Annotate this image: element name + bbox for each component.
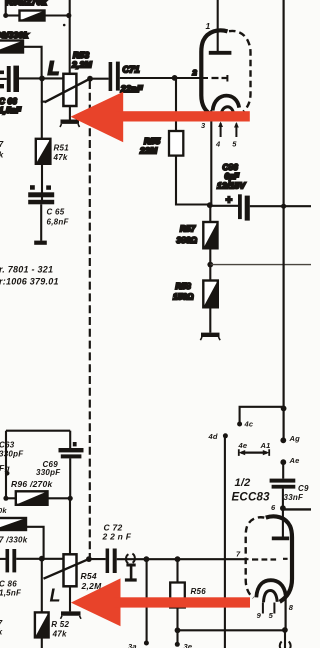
- svg-text:R53: R53: [73, 50, 89, 60]
- svg-text:C9: C9: [298, 484, 309, 493]
- heater pin 4 lead with arrow: [220, 123, 222, 137]
- red annotation arrow bottom: [71, 578, 250, 626]
- node dot C72/down line: [144, 556, 150, 562]
- capacitor C9 top plate: [270, 479, 296, 483]
- wire: R58 to ground: [209, 307, 211, 332]
- svg-text:22nF: 22nF: [120, 84, 143, 94]
- wire: Ae down to C9: [282, 462, 284, 478]
- tube V2 plate bar: [272, 537, 289, 541]
- ground (R53): [60, 122, 80, 127]
- node dot pin 6: [280, 505, 286, 511]
- cathode node dot: [207, 202, 213, 208]
- wire: cathode return bus: [178, 629, 285, 631]
- svg-text:6,8nF: 6,8nF: [47, 217, 70, 226]
- svg-text:R57: R57: [180, 225, 196, 234]
- node dot R57/R58: [207, 262, 213, 268]
- heater pin 5 lead with arrow: [235, 124, 237, 138]
- tube V2 heater hump: [264, 591, 278, 603]
- wire: C71 to grid node of tube V1: [120, 77, 175, 79]
- grid end tick V1: [226, 75, 228, 82]
- wire: pot R53 bottom to ground: [69, 106, 71, 120]
- svg-text:6: 6: [271, 503, 276, 512]
- svg-text:4: 4: [215, 139, 221, 148]
- svg-text:L: L: [50, 586, 61, 606]
- tube V1 plate lead: [217, 0, 219, 51]
- wire: node to bottom edge: [284, 630, 286, 648]
- ganged-pot coupling dashed line: [89, 81, 91, 557]
- terminal dot 3e: [175, 642, 180, 647]
- svg-text:L: L: [48, 59, 59, 79]
- svg-text:Ag: Ag: [289, 434, 301, 443]
- power rail right: [283, 0, 285, 440]
- wire: node L2 down to R52: [41, 559, 43, 613]
- wire: edge stub into C86b: [0, 558, 6, 560]
- svg-text:1,5nF: 1,5nF: [0, 106, 22, 115]
- connector mark ( bottom: [280, 642, 282, 648]
- wire: node to right edge (faint): [210, 264, 311, 266]
- svg-text:C 86: C 86: [0, 579, 17, 588]
- wire: C86 to right edge across rail: [250, 205, 311, 207]
- wire: C72 to grid line of tube V2: [117, 558, 249, 560]
- wire: R90 right then corner down to node L: [23, 47, 42, 79]
- ground (R54): [61, 614, 82, 619]
- wire: left rail to R96: [6, 497, 16, 499]
- wire: edge stub into C66: [0, 78, 7, 80]
- linkage dimension arrow: [239, 449, 270, 456]
- svg-text:12/15V: 12/15V: [217, 181, 247, 191]
- svg-text:R54: R54: [81, 571, 97, 581]
- svg-text:8: 8: [289, 603, 294, 612]
- tube V2 envelope dashed left half: [246, 517, 265, 598]
- svg-text:r:1006 379.01: r:1006 379.01: [0, 276, 59, 286]
- node dot R56 top: [175, 556, 181, 562]
- svg-text:7 /330k: 7 /330k: [0, 536, 28, 545]
- node dot R95 left: [3, 13, 8, 18]
- node dot under C69: [68, 496, 73, 501]
- svg-text:C71: C71: [123, 64, 140, 74]
- heater pin 5 lead: [273, 603, 275, 614]
- ground (R58): [200, 335, 220, 340]
- svg-text:22M: 22M: [139, 145, 158, 155]
- capacitor C86b plates (bottom channel): [6, 549, 10, 572]
- wiper stub to node line: [41, 101, 46, 103]
- svg-text:7k: 7k: [0, 628, 3, 637]
- tube V1 cathode arc: [213, 96, 240, 111]
- svg-text:47k: 47k: [52, 629, 67, 638]
- wire: R56 top lead: [176, 559, 178, 582]
- wire: node to terminal 3e: [176, 630, 178, 643]
- terminal dot Ae: [280, 459, 286, 465]
- wire: R51 to C65: [41, 164, 43, 200]
- wire: R55 top lead: [175, 78, 177, 131]
- capacitor C66 plates: [7, 66, 11, 92]
- svg-text:R56: R56: [191, 587, 207, 596]
- svg-text:4c: 4c: [244, 420, 254, 429]
- connector mark ) bottom: [289, 642, 291, 648]
- wire: R91 right corner down to node L2: [26, 527, 44, 559]
- svg-text:1: 1: [206, 21, 211, 31]
- wire: node down to R58: [209, 265, 211, 281]
- speck dot: [63, 24, 66, 27]
- node L junction dot: [39, 76, 45, 82]
- svg-text:380Ω: 380Ω: [177, 236, 198, 245]
- wiper node dot R54: [86, 556, 92, 562]
- svg-text:330pF: 330pF: [0, 449, 24, 458]
- node dot R56 bottom: [175, 627, 181, 633]
- wire: node A vertical down to pot R53 top: [69, 0, 71, 74]
- wire: cathode node down to R57: [209, 205, 211, 222]
- wire: C69 bottom to R96 node: [69, 458, 71, 498]
- red annotation arrow top: [71, 92, 250, 142]
- svg-text:+: +: [226, 195, 233, 207]
- capacitor C86 plates (electrolytic): [238, 194, 242, 219]
- ground (C65): [34, 241, 47, 245]
- Fg terminal dot: [5, 471, 10, 476]
- wire: R55 bottom to cathode node: [176, 156, 210, 205]
- capacitor C69 bottom plate: [61, 454, 82, 458]
- node dot cathode V2: [282, 627, 288, 633]
- svg-text:Ae: Ae: [289, 456, 300, 465]
- potentiometer R53 body: [63, 74, 76, 106]
- wire: grid node into tube V1: [175, 77, 208, 79]
- svg-text:1,5nF: 1,5nF: [0, 589, 22, 598]
- svg-text:4e: 4e: [238, 441, 248, 450]
- left rail vertical: [5, 431, 7, 499]
- svg-text:3e: 3e: [184, 642, 193, 648]
- wire: 4d line down to bottom edge: [224, 437, 226, 648]
- wire: 4c branch: [240, 407, 284, 423]
- svg-text:47: 47: [0, 140, 4, 149]
- terminal dot 3a: [144, 641, 149, 646]
- svg-text:R51: R51: [54, 143, 70, 152]
- wire: R95 to node A: [45, 14, 69, 16]
- svg-text:C63: C63: [0, 440, 15, 449]
- resistor R96/270k: [16, 491, 48, 505]
- capacitor C66 stub plates at left edge: [0, 71, 4, 75]
- capacitor C69 top plate: [59, 448, 84, 452]
- wire: R56 bottom to node: [176, 608, 178, 631]
- svg-text:4d: 4d: [208, 432, 218, 441]
- wire: R52 to bottom edge: [41, 637, 43, 648]
- svg-text:C86: C86: [223, 163, 239, 172]
- terminal dot Ag: [280, 437, 286, 443]
- grid dashes V2: [252, 558, 288, 561]
- svg-text:2: 2: [192, 68, 198, 77]
- plate tick: [73, 442, 77, 446]
- grid node dot: [172, 75, 178, 81]
- node A junction: [66, 13, 71, 18]
- tube V1 envelope solid left half: [201, 30, 227, 116]
- tube V2 cathode arc: [256, 580, 286, 597]
- resistor R58: [203, 281, 218, 308]
- svg-text:R96 /270k: R96 /270k: [11, 479, 53, 489]
- svg-text:47k: 47k: [53, 153, 68, 162]
- resistor R91/330k (cut at left): [0, 518, 26, 530]
- svg-text:9: 9: [257, 611, 262, 620]
- node dot left: [3, 496, 8, 501]
- wire: cathode lead V1 down to node: [210, 110, 212, 205]
- wire: corner C69 top to left rail: [6, 430, 70, 432]
- wire: C69 top lead: [69, 431, 71, 448]
- potentiometer R54 wiper diagonal: [44, 559, 90, 579]
- svg-text:2,2M: 2,2M: [71, 60, 93, 70]
- wire: node down to terminal 3a: [146, 559, 148, 641]
- wire: R57 to node: [209, 248, 211, 264]
- resistor R55 body: [169, 131, 183, 156]
- heater pin 9 lead: [262, 603, 264, 614]
- svg-text:r. 7801 - 321: r. 7801 - 321: [0, 265, 53, 275]
- wire: pin 6 to right edge: [283, 508, 311, 510]
- tube V1 heater hump: [221, 107, 234, 116]
- svg-text:330pF: 330pF: [36, 468, 61, 477]
- wire: pot R54 bottom to ground: [69, 586, 71, 611]
- connector mark ): [132, 554, 134, 563]
- wire: C86b to pot R54 through node L2: [16, 558, 63, 560]
- terminal dot 4c: [237, 422, 242, 427]
- wire: C65 to ground: [40, 204, 42, 240]
- resistor R51: [36, 139, 51, 164]
- node dot rail / 4c branch: [281, 406, 287, 412]
- svg-text:3a: 3a: [128, 642, 137, 648]
- svg-text:3: 3: [201, 121, 206, 130]
- svg-text:R55: R55: [144, 136, 160, 146]
- svg-text:A1: A1: [260, 441, 271, 450]
- wiper node dot: [87, 76, 93, 82]
- capacitor C65 plates: [28, 192, 54, 197]
- capacitor C9 bottom plate: [272, 485, 296, 489]
- svg-text:90/330k: 90/330k: [0, 30, 29, 40]
- svg-text:R58: R58: [176, 282, 192, 291]
- svg-text:5: 5: [232, 139, 237, 148]
- grid dashes V1: [212, 77, 228, 79]
- wire: node down to pot R54 top: [69, 498, 71, 554]
- junction blob at rail crossing: [281, 204, 286, 209]
- node L2 junction dot: [39, 556, 45, 562]
- tube V1 envelope dashed right half: [229, 31, 251, 112]
- resistor R90/330k (cut at left edge): [0, 41, 23, 53]
- wire: C9 to pin 6 node: [282, 489, 284, 509]
- svg-text:R95/270k: R95/270k: [6, 0, 48, 7]
- wire: wiper node to C72: [89, 558, 106, 560]
- resistor R95/270k: [20, 11, 45, 21]
- resistor R52: [35, 612, 49, 637]
- wire: C66 to pot R53 left, through node L: [19, 77, 63, 79]
- svg-text:150Ω: 150Ω: [173, 293, 194, 302]
- wire: into resistor R95: [6, 14, 20, 16]
- svg-text:ECC83: ECC83: [232, 492, 271, 504]
- capacitor C65 top pads: [30, 185, 35, 190]
- resistor R57: [203, 222, 217, 248]
- terminal dot 4d: [223, 433, 228, 438]
- svg-text:33nF: 33nF: [284, 493, 305, 502]
- capacitor C72 plates: [106, 549, 110, 574]
- wire: cathode lead V2 down: [285, 598, 287, 630]
- potentiometer R54 body: [64, 554, 77, 586]
- wire: left feed vertical to node of R95: [5, 0, 7, 16]
- I-beam jack symbol: [125, 565, 137, 580]
- connector mark (: [126, 554, 128, 563]
- svg-text:1/2: 1/2: [235, 477, 251, 489]
- svg-text:C 65: C 65: [47, 207, 65, 216]
- svg-text:C 66: C 66: [0, 97, 17, 106]
- tube V2 envelope solid right half: [266, 516, 292, 601]
- tube V1 plate bar: [209, 51, 232, 55]
- wire: R96 to node under C69: [48, 497, 71, 499]
- resistor R56 body: [170, 583, 185, 608]
- capacitor C71 plates: [109, 62, 113, 91]
- svg-text:7k: 7k: [0, 150, 4, 159]
- svg-text:7: 7: [236, 549, 241, 558]
- svg-text:2 2 n F: 2 2 n F: [102, 532, 132, 542]
- svg-text:0k: 0k: [0, 506, 7, 515]
- potentiometer R53 wiper diagonal: [45, 79, 91, 103]
- wire: wiper node to C71: [90, 78, 109, 80]
- wire: node L down to R51: [41, 78, 43, 138]
- svg-text:5: 5: [269, 611, 274, 620]
- wire: node to C86: [210, 205, 238, 207]
- tube V2 plate lead: [282, 508, 284, 536]
- svg-text:R 52: R 52: [51, 620, 69, 629]
